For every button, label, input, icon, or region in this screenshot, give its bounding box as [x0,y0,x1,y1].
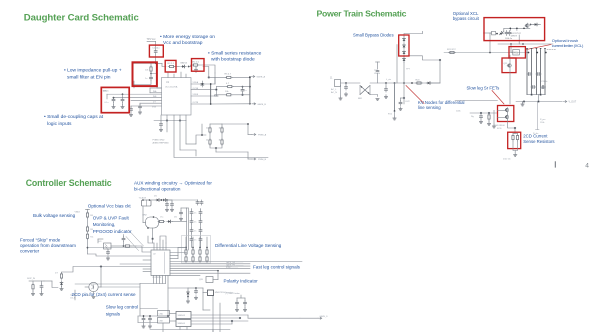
IC left pin labels [152,90,157,109]
capacitor C1 bootstrap storage [152,48,160,54]
capacitor C4 decoupling INA [103,91,116,109]
mosfet Q12 slow leg [505,107,509,112]
red box series R3 [165,60,176,72]
red pointer KV nodes [406,86,424,104]
red box EN pullup [133,62,157,86]
svg-text:• More energy storage on: • More energy storage on [160,34,215,40]
wire out rail [516,101,562,103]
polarity transistor Q20 [199,270,219,283]
svg-text:SKIP_IN: SKIP_IN [27,278,35,280]
wire long mid rail [444,52,529,54]
resistor R20 bus right [416,80,423,85]
wire sr gate feed [455,100,498,102]
svg-text:VBLK: VBLK [75,212,81,214]
svg-text:AGND REFGND: AGND REFGND [153,142,170,145]
red box slow leg fets [498,106,514,122]
svg-text:Optional V​cc bias ckt: Optional V​cc bias ckt [88,203,132,208]
resistor R4 boot [189,62,200,67]
svg-text:GATE_A: GATE_A [257,76,266,79]
IC U1 gate driver body [162,78,192,116]
terminal slow gate [300,315,328,319]
resistor R23 left [471,114,490,121]
IC bottom pin stubs [154,276,221,332]
wire rail up to xcl box [490,33,492,53]
svg-text:PGND GND: PGND GND [153,140,165,142]
label aux cluster [154,196,178,219]
svg-text:Monitoring,: Monitoring, [93,222,116,227]
svg-text:converter: converter [20,249,40,254]
note: low impedance pullup [64,68,122,81]
diode D22 aux out [167,220,187,223]
wire pullup branch [150,63,152,65]
capacitor C42 vcc [179,208,186,221]
svg-text:L_rtn: L_rtn [386,78,392,81]
resistor R3 series bootstrap [168,63,175,68]
svg-text:Slow leg Sr FETs: Slow leg Sr FETs [467,86,500,91]
junction xcl top dots [509,27,524,29]
wire boot vdda riser [211,73,217,96]
resistor R10 low net [209,124,223,133]
svg-text:Small Bypass Diodes: Small Bypass Diodes [353,32,394,37]
wire bus bottom [527,94,545,102]
diode bridge diamond aux [143,215,159,229]
svg-text:0.1u: 0.1u [105,102,109,104]
capacitor C3 boot [195,66,198,72]
svg-text:• Small series resistance: • Small series resistance [208,51,262,57]
wire INB drop [105,94,109,104]
resistor R9 row C [225,91,232,96]
wire riser tp5 [376,62,380,83]
node VCC input [147,38,157,42]
svg-text:C1 10u: C1 10u [152,48,160,50]
svg-text:T1 AUX: T1 AUX [139,197,147,200]
capacitor C6 DT [129,106,132,117]
wire q11 down [509,69,511,105]
note: small decoupling caps [44,114,104,127]
svg-text:OVP & UVP Fault: OVP & UVP Fault [93,216,130,221]
wire bypass top [404,31,422,37]
note: AUX winding circuitry [134,180,212,191]
svg-text:PWM_B: PWM_B [258,159,267,161]
wire row A to bus [232,76,250,78]
resistor R7 gate B [226,83,233,88]
wire xcl box down [518,35,520,44]
red box inrush limiter [509,47,525,58]
junction rail a [489,43,524,53]
svg-text:100k 1n: 100k 1n [505,38,512,40]
red pointer inrush [527,45,552,50]
svg-text:MBRS: MBRS [540,88,546,90]
svg-text:R4 2.0: R4 2.0 [193,62,200,64]
label bus TP [374,70,392,81]
svg-text:DBV R: DBV R [511,35,518,37]
note: optional XCL bypass circuit [453,11,480,21]
sense network frame [182,236,211,264]
capacitor bank bus [527,73,546,89]
junction rail bus dots [528,52,547,54]
capacitor C46 cs [194,287,203,299]
wire skip input [29,281,58,288]
label out caps [540,81,547,124]
svg-text:Forced “Skip” mode: Forced “Skip” mode [20,238,61,243]
wire row B to bus [233,86,250,88]
svg-text:R_pre: R_pre [540,119,546,121]
bottom bus wire [75,284,166,317]
svg-text:MMBT3904 inverter: MMBT3904 inverter [215,291,234,294]
gate drive block A [176,312,191,319]
svg-text:AC_N: AC_N [331,91,337,94]
wire row B [215,87,226,91]
diode D11 bypass [403,43,406,49]
bridge X crossing [360,86,370,95]
svg-text:Sense Resistors: Sense Resistors [523,139,554,144]
wire boot to IC top [199,65,215,73]
svg-text:line sensing: line sensing [418,105,441,110]
svg-text:bypass circuit: bypass circuit [453,16,480,21]
svg-text:signals: signals [106,312,121,317]
svg-text:Fast leg control signals: Fast leg control signals [253,264,301,269]
wire rail jog [162,63,166,66]
bus arrowheads [526,48,546,50]
wire diag ovp2 [126,237,139,251]
resistor R11 low net2 [209,133,223,145]
svg-text:R5 4.7: R5 4.7 [225,74,232,76]
red box bypass diodes [399,35,409,56]
note: OVP UVP fault monitoring [93,216,132,234]
capacitor C41 aux2 [170,200,173,212]
svg-text:150k: 150k [540,122,544,124]
mosfet Q10 xcl [525,23,532,28]
wire ovp to IC [136,246,151,252]
svg-text:bi-directional operation: bi-directional operation [134,187,181,192]
note: small series resistance [208,51,262,63]
component K1 xcl relay [492,31,498,35]
forced skip opto U4 [55,273,63,287]
capacitor pair aux right [167,200,203,205]
svg-text:OUTA: OUTA [193,87,199,90]
capacitor pair xcl [505,30,511,35]
wire bypass riser [403,56,405,57]
svg-text:SN6505: SN6505 [178,315,186,317]
capacitor CX1 input [344,82,347,96]
transformer circle T2 [85,282,101,298]
wire T2 net [75,266,102,300]
fast leg wire end labels [226,261,244,269]
gate drive block B [176,320,191,327]
capacitor C5 decoupling INB [121,93,124,108]
svg-text:logic inputs: logic inputs [47,121,72,127]
svg-text:UCD3138: UCD3138 [153,277,163,279]
svg-text:2CD 5m: 2CD 5m [503,159,511,161]
svg-text:XCL: XCL [514,52,519,55]
IC left pin wires [107,93,162,106]
capacitor C20 bus [384,82,387,98]
wire EN rail left [133,62,156,64]
red box C1 energy storage [149,45,163,57]
wire bridge to bus [370,82,440,84]
svg-text:with bootstrap diode: with bootstrap diode [211,57,255,63]
capacitor C44 midleft [106,249,109,260]
svg-text:Slow leg control: Slow leg control [106,304,138,309]
wire vcc to rail [156,54,160,63]
svg-text:VSS: VSS [152,107,157,109]
diode D16 xcl right [531,23,541,26]
ground left cluster [487,120,490,125]
red box sense resistors [508,132,521,148]
svg-text:• Low impedance pull-up +: • Low impedance pull-up + [64,68,122,74]
wire rail right outputs [191,315,300,324]
mosfet Q11 inrush [504,63,512,68]
note: KV nodes differential [418,100,465,110]
mosfet Q13 slow leg [505,113,509,120]
capacitor C7 vss left [138,103,141,114]
mmbt transistor Q21 [203,288,233,296]
svg-text:Polarity Indicator: Polarity Indicator [224,278,259,283]
IC left pin wires [100,260,151,272]
junction bus mid [394,82,413,84]
capacitor C48 rail [148,315,151,328]
wire row A [209,77,226,84]
svg-text:R3 2.2: R3 2.2 [168,63,175,65]
IC top pin stubs [165,72,186,78]
capacitor C8 vdda [201,81,204,87]
sense divider resistors row1 [185,249,208,256]
capacitor C40 aux [164,199,172,211]
bus continuation dashes [547,48,556,50]
diode D21 aux [160,199,167,202]
svg-text:PPGOOD indicator: PPGOOD indicator [93,229,132,234]
sensing cap column 1 [190,210,202,242]
note: 2CD current sense resistors [523,134,554,144]
wire aux bridge connections [143,206,153,243]
wire vcc vertical [155,42,157,49]
capacitor C21 kv [399,98,404,111]
resistor R24 sense [512,134,515,141]
wire xcl top bus [498,43,553,45]
IC right pin wires [191,84,218,104]
svg-text:VDDA: VDDA [193,81,199,84]
svg-text:R21 NTC: R21 NTC [447,49,457,51]
terminal Vout [563,101,577,104]
wire low net to terminal [196,124,252,159]
svg-text:BAT54: BAT54 [181,62,188,65]
wire sense drop [394,83,396,111]
resistor R32 skip [31,283,34,295]
label sense [503,159,511,161]
bottom edge rail [150,323,230,332]
red box boot R4 [192,59,205,72]
wire cluster left of B5 [470,112,498,114]
svg-text:Daughter Card Schematic: Daughter Card Schematic [24,12,140,23]
diode D15 below box [403,57,411,71]
svg-text:4: 4 [585,162,589,169]
sensing cap column wires [192,209,201,248]
wire cs row [101,287,188,288]
IC right pin labels [193,81,199,104]
capacitor C2 EN filter [145,72,153,80]
junction vcc rail [155,62,157,64]
svg-text:INA: INA [103,90,107,93]
ground input [339,85,342,100]
wire sense to gnd [513,141,518,157]
svg-text:UCC21225A: UCC21225A [165,86,178,89]
wire B3 to Q11 [509,55,511,63]
terminal PWM A [252,134,267,137]
wire input to bus [341,82,361,84]
svg-text:TP1 Vcc: TP1 Vcc [147,38,157,41]
diode D20 aux [151,199,161,202]
capacitor C43 ovp [122,235,125,247]
capacitor C33 left [456,111,483,124]
wire fets to sense [508,120,516,133]
svg-text:GATE_B: GATE_B [257,103,266,106]
diode D1 bootstrap [181,62,188,68]
wire kv2 drop [403,83,410,104]
node sense KV1 [388,110,396,120]
svg-text:current limiter (XCL): current limiter (XCL) [552,43,584,48]
wire EN to IC [134,74,162,89]
red box inrush fet [502,58,516,73]
svg-text:V_OUT: V_OUT [569,102,577,104]
diode D14 xcl [498,30,504,36]
capacitor C11 below IC [153,121,170,145]
diode D10 bypass [403,50,406,56]
wire drop to inrush [510,44,512,49]
wire bypass top drop [397,45,440,84]
label under slow fets [494,125,505,130]
current sense diode cluster [186,288,196,303]
wire lower bus [174,121,268,158]
IC U2 controller body [151,250,170,279]
note: more energy storage [160,34,215,46]
svg-text:KCS: KCS [497,128,502,130]
slow leg bottom rail [138,314,176,323]
resistor R30 aux out [158,220,165,222]
svg-text:SYNC ———: SYNC ——— [226,267,238,269]
svg-text:2CD pin for (2x4) current sens: 2CD pin for (2x4) current sense [72,292,137,297]
bulk divider chain [75,210,90,255]
svg-text:• Small de-coupling caps at: • Small de-coupling caps at [44,114,104,120]
red box XCL bypass [484,18,545,41]
wire bulk to IC [88,254,152,256]
sense divider top nodes [185,237,208,249]
junction low [201,123,249,149]
svg-text:CSB: CSB [159,321,164,323]
junction pullup [150,73,152,75]
capacitor C9 row B [241,86,247,93]
note: slow leg control signals [106,304,138,316]
out bus right dark [249,76,251,103]
wire out bus vertical [210,84,212,104]
wire bottom row [211,103,250,105]
resistor R31 ovp [111,245,136,247]
label T2 [70,294,91,300]
svg-text:AC_L: AC_L [331,88,337,91]
IC bottom pin stubs [161,115,186,121]
resistor R21 rail [447,49,457,54]
svg-text:GATE_S: GATE_S [320,315,329,318]
component XCL thermistor [511,49,519,55]
wire right edge riser [439,59,441,83]
svg-text:Differential Line Voltage Sens: Differential Line Voltage Sensing [215,243,282,248]
label cap column [194,213,197,242]
svg-text:PWM_A: PWM_A [258,134,267,137]
wire pgood stub [98,239,103,243]
wire xcl entry [484,32,492,34]
resistor R2 pull-up [145,66,152,73]
capacitor C45 skip [40,284,43,296]
label value cluster [206,128,223,142]
diode D12 bypass [403,37,406,43]
capacitor C30 out [521,102,524,107]
wire rail to R3 [156,62,162,64]
svg-text:CSA: CSA [159,313,164,316]
ovp opto U3 [99,241,112,249]
relay block pair [158,311,170,324]
wire discharge resistor drop [536,102,540,130]
bulk divider labels [90,215,94,238]
footer separator [554,161,556,167]
sense divider resistors row2 [185,256,208,263]
svg-text:Bulk voltage sensing: Bulk voltage sensing [33,213,76,218]
terminal PWM B [252,158,267,161]
bottom bus [154,120,186,122]
capacitor C47 rail [142,315,145,328]
connector J1 AC input [330,78,341,95]
junction out bus right [249,77,251,105]
wire row C [215,95,226,96]
wire skip to IC [60,267,100,291]
svg-text:Vcc and bootstrap: Vcc and bootstrap [163,40,203,46]
wire lower drops [167,121,196,151]
svg-text:C31 4x: C31 4x [541,81,547,83]
junction D1 out [188,66,190,68]
wire vcc riser pair [187,208,189,250]
wire R3 to D1 [175,66,180,68]
red pointer slow leg [492,91,504,105]
wire diag ovp [129,230,144,246]
terminal gate A [251,76,266,79]
wire R4 jog down [203,67,210,79]
wire row C to bus [232,93,250,96]
resistor R5 gate A [225,74,233,79]
svg-text:SN6505: SN6505 [178,323,186,325]
svg-text:small filter at EN pin: small filter at EN pin [67,75,111,81]
svg-text:VDDB: VDDB [193,94,199,96]
terminal gate B [252,103,267,106]
svg-text:Power Train Schematic: Power Train Schematic [317,9,407,19]
cap pair right [235,295,246,312]
svg-text:Controller Schematic: Controller Schematic [26,178,112,188]
wire EN left edge [134,85,162,93]
svg-text:OUTB: OUTB [193,102,199,104]
note: forced skip mode [20,238,76,254]
wire gate stubs slow fets [492,110,504,128]
vertical bus lines [527,50,545,95]
aux winding transformer T1 [139,197,152,207]
diode D13 bus right [426,82,440,85]
svg-text:AUX winding circuitry → Optimi: AUX winding circuitry → Optimized for [134,180,212,185]
junction out bus [210,83,217,105]
svg-text:operation from downstream: operation from downstream [20,243,76,248]
note: optional inrush current limiter [552,38,584,48]
IC top pin wires [148,236,166,250]
wire divider to sense grid [88,247,187,249]
label xcl center cluster [505,33,522,40]
wire xcl top [504,28,530,31]
IC right pin wires fast leg [170,248,302,276]
resistor R25 sense [515,134,519,141]
